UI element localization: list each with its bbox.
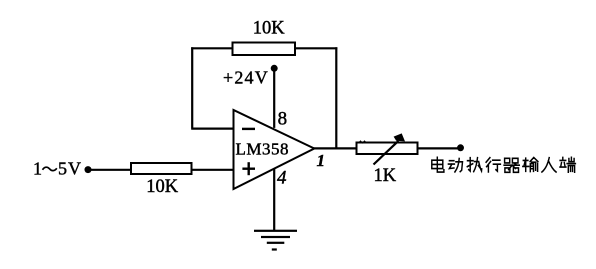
svg-text:1: 1	[317, 151, 326, 170]
svg-text:4: 4	[277, 168, 287, 189]
svg-text:1K: 1K	[374, 166, 397, 186]
svg-text:1: 1	[33, 158, 42, 178]
svg-text:5V: 5V	[58, 158, 82, 178]
svg-text:8: 8	[278, 108, 288, 129]
svg-text:10K: 10K	[253, 18, 285, 38]
svg-text:+24V: +24V	[223, 67, 269, 87]
svg-text:10K: 10K	[146, 177, 179, 197]
svg-text:LM358: LM358	[236, 140, 290, 159]
